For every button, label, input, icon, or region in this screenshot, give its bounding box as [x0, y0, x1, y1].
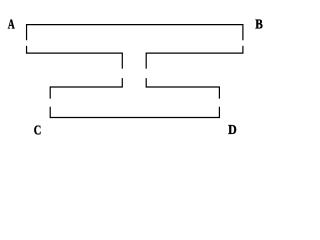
- svg-text:C: C: [34, 124, 42, 139]
- wire left connector A-down: [27, 46, 123, 69]
- wire top bracket A-B: [27, 25, 243, 41]
- svg-text:B: B: [255, 17, 263, 32]
- svg-text:A: A: [8, 17, 16, 32]
- wire mid-right connector: [146, 78, 219, 99]
- wire mid-left connector: [50, 78, 122, 99]
- svg-text:D: D: [228, 123, 237, 138]
- wire right connector B-down: [146, 46, 243, 69]
- wire bottom bracket C-D: [50, 107, 219, 118]
